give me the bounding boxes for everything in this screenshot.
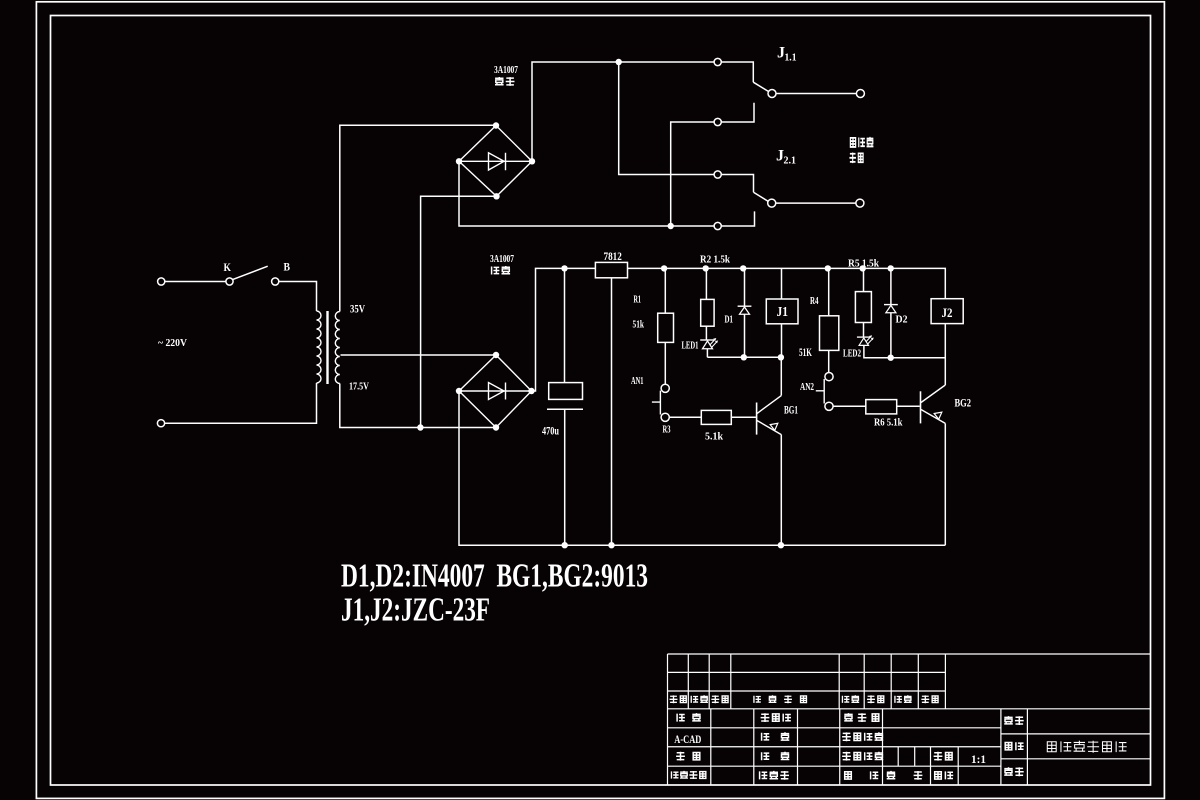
switch K blade [233,266,268,279]
wire dc- riser to J1.1 bottom contact [671,122,714,226]
diode D2 [890,268,892,304]
bridge1 internal diode [489,153,506,170]
wire BG1 collector up [780,357,782,395]
capacitor C 470u positive plate [564,268,566,382]
title block header row labels [670,695,678,703]
resistor R5 1.5k [863,268,865,291]
title block row: chu tu ri qi / ban ben hao / gong zhang di zhang zhong liang [671,771,678,778]
junction dc- [668,223,674,229]
svg-text:7812: 7812 [604,251,622,263]
relay contact J2.1 [714,171,721,178]
wire secondary top to bridge1 top vertex [340,125,496,311]
wire J1 coil to collector rail [781,324,783,358]
bridge2 vertex junctions [493,352,499,358]
relay contact J1.1 [714,58,721,65]
wire 7812 gnd pin [611,278,613,545]
svg-text:J1: J1 [777,304,789,319]
bridge1 vertex junctions [493,122,499,128]
svg-text:51k: 51k [633,319,645,331]
led LED1 [705,326,707,340]
svg-text:5.1k: 5.1k [705,432,723,443]
regulator U 7812 [595,262,627,277]
bridge rectifier 2 3A1007 diamond [459,355,532,428]
contact B circle [272,278,279,285]
svg-text:1.1: 1.1 [785,52,797,64]
wire secondary bottom to bridge2 bottom vertex [340,384,496,428]
wire BG2 emitter down to ground rail [944,423,946,545]
svg-text:1:1: 1:1 [971,752,986,766]
rail junction dots [561,265,567,271]
svg-text:17.5V: 17.5V [349,381,369,393]
bridge2 internal diode [489,383,506,400]
wire R1 to AN1 [664,342,666,384]
resistor R4 51K [828,268,830,315]
relay coil J2 [931,299,963,324]
bridge rectifier 1 3A1007 diamond [459,126,532,197]
svg-text:R5 1.5k: R5 1.5k [848,259,879,270]
switch K contact circle [226,278,233,285]
junctions D1 and J1/BG1 on collector rail [741,354,747,360]
wire B to transformer primary top [279,282,317,312]
note jie shou zhou / yao gan (to actuator) [850,138,855,147]
wire BG1 emitter down to ground rail [780,435,782,546]
push button AN2 [825,373,833,381]
title block grid [668,654,1151,785]
ac source terminal top [158,278,165,285]
svg-text:R1: R1 [634,294,642,306]
svg-text:LED2: LED2 [843,349,861,360]
svg-text:BG1: BG1 [784,405,798,417]
wire bridge2 left vertex to ground rail [459,391,945,545]
junction secondary-bottom / bridge1 ac [417,424,423,430]
ac source terminal bottom [157,420,164,427]
wire BG2 collector up to J2 [944,324,946,385]
svg-text:51K: 51K [799,347,812,359]
resistor R3 5.1k [701,410,731,424]
svg-text:LED1: LED1 [682,341,699,352]
svg-text:3A1007: 3A1007 [490,254,514,265]
diode D1 [744,268,746,306]
push button AN1 [661,384,669,392]
resistor R2 1.5k [705,268,707,299]
relay coil J1 [781,268,783,299]
svg-text:AN1: AN1 [631,376,644,387]
junction D2 on collector rail 2 [888,355,894,361]
wire dc+ drop to J2.1 top contact [619,62,714,175]
wire bridge1 right vertex (dc+) up and to contacts [532,62,714,161]
wire AN2 to R6 [833,405,866,407]
svg-text:470u: 470u [542,424,559,438]
wire top terminal to switch K [165,281,226,283]
wire R4 to AN2 [828,350,830,372]
wire +12V rail [628,268,946,298]
wire R3 to BG1 base [731,416,756,418]
transistor BG1 [756,403,758,435]
wire bridge2 right vertex to 7812 input [532,268,596,391]
svg-text:A-CAD: A-CAD [674,734,701,746]
svg-text:R4: R4 [810,295,819,307]
svg-text:D1: D1 [725,315,734,326]
svg-text:D1,D2:IN4007 BG1,BG2:9013: D1,D2:IN4007 BG1,BG2:9013 [341,558,648,595]
svg-text:D2: D2 [896,315,908,326]
svg-text:~ 220V: ~ 220V [158,338,187,349]
wire bridge1 bottom vertex to AC drop [421,196,497,427]
svg-text:K: K [224,262,232,274]
collector rail J1 [707,356,781,358]
svg-text:AN2: AN2 [800,382,814,393]
resistor R6 5.1k [866,400,897,414]
wire secondary center tap to bridge2 top vertex [341,354,497,356]
wire bridge1 left vertex (dc-) down and to J2.1 bottom contact [459,161,714,226]
resistor R1 51k [664,268,666,313]
title block row: she ji / biao zhun hua / cun dang hao [677,714,685,722]
transistor BG2 [920,391,922,423]
wire bottom terminal to transformer primary bottom [165,383,317,423]
svg-text:R2 1.5k: R2 1.5k [700,255,730,266]
capacitor C 470u negative plate [547,408,583,410]
svg-text:R6 5.1k: R6 5.1k [874,418,903,429]
transformer core [326,311,328,384]
title: tian xian kong zhi dian lu (antenna control circuit) [1047,742,1056,752]
svg-text:BG2: BG2 [955,398,972,410]
transformer primary winding [317,311,322,383]
junction dc+ [616,59,622,65]
svg-text:2.1: 2.1 [784,155,797,167]
ground rail junction dots [562,542,568,548]
wire LED1 to collector rail [706,349,708,358]
svg-text:R3: R3 [663,425,671,436]
svg-text:J2: J2 [942,305,953,320]
led LED2 [863,323,865,338]
title block right: cai liao / ming cheng / tu hao labels [1004,716,1013,724]
wire AN1 to R3 [669,416,701,418]
wire LED2 down to collector rail 2 [864,345,945,357]
svg-text:B: B [284,262,291,274]
title block row: jiao he / pi zhun / tu yang biao ji / bi li 1:1 [676,752,685,761]
svg-text:J1,J2:JZC-23F: J1,J2:JZC-23F [341,592,490,629]
svg-text:3A1007: 3A1007 [494,65,518,76]
wire R6 to BG2 base [897,405,920,407]
svg-text:35V: 35V [350,304,366,316]
transformer secondary winding [335,312,340,384]
